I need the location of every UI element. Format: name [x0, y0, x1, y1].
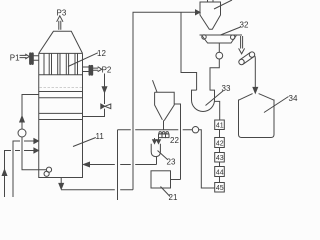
svg-text:34: 34 [289, 94, 298, 103]
flange P2 [89, 65, 93, 75]
wire branch to dome left [181, 12, 197, 90]
wire 21 outlet [171, 179, 181, 181]
svg-text:12: 12 [97, 49, 106, 58]
box 42 [215, 138, 225, 148]
arrow feeder outlet [239, 36, 245, 54]
wire valve to dome [210, 59, 219, 90]
leader 21 [161, 187, 171, 197]
leader 34 [264, 97, 289, 113]
wire valve branch [218, 43, 220, 52]
tube bundle 12 [39, 53, 83, 74]
svg-text:32: 32 [240, 21, 249, 30]
wire feed line C [5, 151, 35, 198]
sump nozzle circles [46, 167, 51, 172]
svg-text:42: 42 [216, 141, 224, 148]
svg-text:11: 11 [96, 132, 105, 141]
screen feeder 22 [159, 132, 170, 138]
cyclone 31 [200, 0, 221, 29]
wire horizontal to valve [118, 129, 193, 131]
hopper 22 [155, 92, 175, 130]
wire 23 outlet [156, 157, 158, 165]
box 45 [215, 183, 225, 193]
feeder 32 [200, 35, 243, 43]
wire drum to hopper [254, 56, 256, 88]
wire valve to tower [83, 109, 105, 117]
arrowhead return [84, 162, 90, 167]
box 41 [215, 120, 225, 130]
vessel 23 [151, 144, 160, 157]
arrowhead into cyclone [196, 10, 201, 15]
svg-text:43: 43 [216, 155, 224, 162]
wire recirculation riser [22, 95, 39, 130]
tray 1 [39, 91, 83, 93]
wire 42-43 [219, 148, 221, 153]
tray dashed [40, 87, 83, 89]
valve circle C2 [192, 127, 198, 133]
box 21 [151, 171, 171, 188]
svg-text:23: 23 [167, 158, 176, 167]
svg-text:41: 41 [216, 123, 224, 130]
arrowhead feed C [34, 148, 39, 153]
drum conveyor [239, 52, 255, 65]
arrow P1 [20, 54, 30, 59]
dome 33 [192, 90, 215, 111]
svg-text:P3: P3 [57, 9, 67, 18]
box 43 [215, 153, 225, 163]
leader 31 [214, 0, 232, 9]
arrowhead outlet [59, 183, 64, 189]
tower 11 body [39, 53, 83, 177]
leader 33 [206, 91, 224, 106]
wire riser to cyclone [133, 12, 196, 189]
svg-text:P2: P2 [102, 65, 112, 74]
pump circle [18, 129, 26, 137]
leader 32 [221, 27, 241, 35]
leader 12 [68, 53, 98, 67]
wire drain column [117, 130, 119, 200]
svg-text:45: 45 [216, 185, 224, 192]
arrow P2 [93, 67, 102, 72]
wire to box 45 [199, 130, 215, 188]
arrow P3 [57, 16, 63, 30]
tray 2 [39, 97, 83, 99]
leader hopper [153, 80, 158, 92]
arrowhead down [102, 87, 107, 93]
valve V1 [101, 104, 111, 109]
arrowhead feed B [34, 139, 39, 144]
rotary valve circle [216, 52, 223, 59]
svg-text:33: 33 [222, 84, 231, 93]
wire pump suction [22, 137, 46, 170]
tray 3 [39, 112, 83, 114]
leader 23 [158, 151, 168, 160]
nozzle P2 pipe [83, 67, 90, 72]
wire feed line B [13, 141, 35, 197]
box 44 [215, 167, 225, 177]
flange P1 [30, 53, 39, 65]
tray 4 [39, 119, 83, 121]
wire 44-45 [219, 177, 221, 183]
wire tower bottom outlet [60, 178, 62, 184]
wire P2 downcomer [104, 74, 106, 105]
wire 43-44 [219, 162, 221, 167]
arrows into 23 [153, 138, 161, 144]
wire dome to box 41 [215, 101, 220, 120]
wire 41-42 [219, 130, 221, 138]
svg-text:22: 22 [170, 136, 179, 145]
hopper 34 [239, 94, 275, 138]
leader 11 [73, 138, 96, 147]
svg-text:44: 44 [216, 170, 224, 177]
arrowhead up on C [2, 170, 7, 176]
arrowhead into hopper 34 [253, 87, 258, 93]
wire hopper to riser [174, 104, 180, 180]
arrowhead up [20, 116, 25, 122]
wire bottom run [61, 189, 133, 191]
svg-text:P1: P1 [10, 54, 20, 63]
tower 11 hood [39, 31, 83, 53]
wire return to tower [90, 164, 157, 166]
